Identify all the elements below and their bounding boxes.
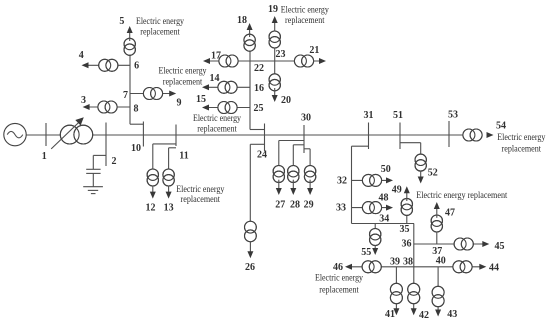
svg-text:33: 33: [336, 202, 346, 213]
wire arrow stem 43: [437, 307, 439, 312]
svg-text:40: 40: [436, 256, 446, 267]
node label 46: [333, 262, 343, 273]
svg-text:18: 18: [237, 15, 247, 26]
wire elbow bus10 to riser A: [130, 123, 143, 125]
node label 51: [393, 110, 403, 121]
load arrow 19: [272, 16, 278, 23]
load arrow 21: [319, 58, 326, 64]
transformer load 20: [269, 74, 280, 91]
node label 15: [196, 94, 206, 105]
transformer load 44: [453, 261, 472, 273]
bus 11 tick: [175, 125, 177, 147]
transformer load 49: [401, 198, 412, 215]
svg-text:9: 9: [177, 98, 182, 109]
wire node23 vertical down: [274, 61, 276, 75]
load arrow 45: [482, 241, 489, 247]
bus 51 tick: [399, 123, 401, 150]
transformer load 4: [99, 59, 118, 71]
svg-text:44: 44: [489, 262, 499, 273]
text electric energy replacement (9): [159, 66, 207, 87]
svg-text:51: 51: [393, 110, 403, 121]
transformer load 19: [269, 31, 280, 48]
svg-text:36: 36: [402, 238, 412, 249]
svg-text:34: 34: [379, 213, 389, 224]
bus 1 tick: [45, 123, 47, 146]
wire arrow stem 18: [249, 29, 251, 38]
svg-text:10: 10: [131, 143, 141, 154]
text electric energy replacement (54): [497, 132, 545, 154]
node label 47: [445, 207, 455, 218]
svg-text:28: 28: [290, 200, 300, 211]
svg-text:Electric energy: Electric energy: [136, 16, 184, 26]
node label 20: [281, 95, 291, 106]
load arrow 26: [247, 251, 253, 258]
wire arrow stem 19: [274, 22, 276, 32]
wire branch 9 at node 7: [130, 93, 172, 95]
transformer load 46: [362, 261, 381, 273]
svg-text:Electric energy: Electric energy: [315, 272, 363, 282]
node label 10: [131, 143, 141, 154]
wire riser B vertical: [249, 40, 251, 130]
load arrow 15: [202, 105, 209, 111]
wire arrow stem 13: [168, 186, 170, 193]
svg-text:30: 30: [301, 113, 311, 124]
node label 38: [403, 256, 413, 267]
node label 21: [309, 45, 319, 56]
load arrow 41: [393, 308, 399, 315]
svg-text:11: 11: [179, 150, 188, 161]
transformer load 18: [244, 34, 255, 51]
wire row 38 horizontal: [352, 266, 483, 268]
wire arrow stem 55: [374, 246, 376, 249]
wire stair bus30 drop 28: [293, 145, 304, 166]
svg-text:19: 19: [268, 4, 278, 15]
node label 42: [419, 310, 429, 321]
node label 8: [134, 104, 139, 115]
wire elbow bus51 to 52: [400, 143, 421, 155]
wire arrow stem 47: [436, 208, 438, 218]
transformer load 48: [362, 202, 381, 214]
bus 31 tick: [368, 123, 370, 150]
transformer load 47: [431, 215, 442, 232]
node label 11: [179, 150, 188, 161]
node label 53: [448, 109, 458, 120]
svg-text:replacement: replacement: [285, 15, 325, 25]
load arrow 48: [386, 205, 393, 211]
load arrow 52: [418, 177, 424, 184]
bus 53 tick: [448, 121, 450, 147]
wire stair bus11 drop 13: [169, 148, 176, 169]
transformer load 15: [218, 102, 237, 114]
node label 6: [134, 61, 139, 72]
wire arrow stem 26: [249, 242, 251, 253]
wire elbow bus24 to riser B: [250, 129, 265, 131]
svg-text:50: 50: [381, 164, 391, 175]
load arrow 44: [479, 264, 486, 270]
svg-text:48: 48: [379, 193, 389, 204]
svg-text:8: 8: [134, 104, 139, 115]
svg-text:21: 21: [309, 45, 319, 56]
svg-text:replacement: replacement: [197, 124, 237, 134]
svg-text:46: 46: [333, 262, 343, 273]
node label 54: [496, 120, 506, 131]
svg-text:2: 2: [112, 156, 117, 167]
node label 1: [42, 151, 47, 162]
transformer load 42: [408, 283, 420, 303]
text electric energy replacement (49): [416, 190, 507, 200]
transformer load 14: [218, 81, 237, 93]
transformer load 21: [294, 55, 313, 67]
bus 10 tick: [142, 122, 144, 147]
transformer load 9: [143, 88, 162, 100]
wire arrow stem 20: [274, 88, 276, 97]
node label 50: [381, 164, 391, 175]
node label 49: [392, 185, 402, 196]
svg-text:15: 15: [196, 94, 206, 105]
bus 24 tick: [264, 124, 266, 152]
node label 37: [432, 246, 442, 257]
node label 32: [337, 175, 347, 186]
load arrow 28: [290, 188, 296, 195]
wire main horizontal bus: [26, 134, 464, 136]
node label 33: [336, 202, 346, 213]
svg-text:24: 24: [257, 149, 267, 160]
load arrow 18: [247, 23, 253, 30]
node label 24: [257, 149, 267, 160]
wire stem 49: [406, 215, 408, 224]
svg-text:1: 1: [42, 151, 47, 162]
wire stair bus11 drop 12: [153, 144, 176, 169]
svg-text:20: 20: [281, 95, 291, 106]
svg-text:replacement: replacement: [502, 144, 542, 154]
wire left feeder vertical: [351, 146, 353, 223]
svg-text:Electric energy replacement: Electric energy replacement: [416, 190, 507, 200]
svg-text:14: 14: [210, 73, 220, 84]
load arrow 5: [127, 26, 133, 33]
node label 48: [379, 193, 389, 204]
transformer load 45: [454, 238, 473, 250]
wire riser A vertical: [129, 43, 131, 124]
node label 17: [211, 50, 221, 61]
transformer load 5: [124, 38, 135, 55]
svg-text:replacement: replacement: [319, 285, 359, 295]
node label 31: [364, 110, 374, 121]
load arrow 12: [150, 192, 156, 199]
wire elbow bus31 to left feeder: [352, 145, 369, 147]
load arrow 27: [276, 188, 282, 195]
wire node23 vertical up: [274, 48, 276, 62]
node label 27: [275, 200, 285, 211]
svg-text:25: 25: [254, 103, 264, 114]
AC source generator G: [4, 123, 26, 145]
wire stem 47: [436, 232, 438, 245]
transformer load 17: [219, 55, 238, 67]
node label 2: [112, 156, 117, 167]
svg-text:22: 22: [254, 63, 264, 74]
node label 44: [489, 262, 499, 273]
wire arrow stem 41: [395, 304, 397, 310]
text electric energy replacement (12/13): [176, 184, 224, 204]
transformer load 3: [98, 101, 117, 113]
load arrow 20: [272, 95, 278, 102]
node label 30: [301, 113, 311, 124]
svg-text:17: 17: [211, 50, 221, 61]
node label 25: [254, 103, 264, 114]
svg-text:32: 32: [337, 175, 347, 186]
load arrow 54: [487, 132, 494, 138]
load arrow 17: [203, 58, 210, 64]
svg-text:49: 49: [392, 185, 402, 196]
load arrow 42: [411, 308, 417, 315]
svg-text:35: 35: [400, 224, 410, 235]
wire bus2 to capacitor: [93, 155, 106, 169]
wire arrow stem 52: [420, 171, 422, 177]
wire branch 15 at node 25: [204, 107, 250, 109]
svg-text:45: 45: [495, 241, 505, 252]
text electric energy replacement (46): [315, 272, 363, 294]
svg-text:42: 42: [419, 310, 429, 321]
node label 29: [304, 200, 314, 211]
svg-text:23: 23: [276, 49, 286, 60]
wire arrow stem 12: [152, 186, 154, 193]
node label 22: [254, 63, 264, 74]
wire arrow stem 28: [292, 180, 294, 190]
node label 18: [237, 15, 247, 26]
wire branch 3 at node 8: [84, 106, 130, 108]
node label 19: [268, 4, 278, 15]
wire drop 26 vertical: [249, 144, 251, 222]
node label 26: [245, 262, 255, 273]
svg-text:16: 16: [254, 83, 264, 94]
node label 34: [379, 213, 389, 224]
svg-text:31: 31: [364, 110, 374, 121]
svg-text:47: 47: [445, 207, 455, 218]
node label 9: [177, 98, 182, 109]
load arrow 43: [435, 310, 441, 317]
transformer T1 (OLTC) with regulation arrow: [51, 117, 92, 149]
svg-text:replacement: replacement: [140, 27, 180, 37]
wire branch 48 at node 33: [352, 207, 389, 209]
svg-text:3: 3: [81, 95, 86, 106]
wire stair bus30 drop 29: [304, 149, 310, 166]
load arrow 14: [202, 84, 209, 90]
svg-text:26: 26: [245, 262, 255, 273]
transformer load 55: [370, 229, 381, 246]
svg-text:Electric energy: Electric energy: [193, 113, 241, 123]
node label 16: [254, 83, 264, 94]
wire drop 43: [437, 267, 439, 287]
transformer load 29: [304, 166, 315, 183]
wire stem 55: [374, 224, 376, 230]
svg-text:27: 27: [275, 200, 285, 211]
node label 13: [164, 202, 174, 213]
wire stair bus30 drop 27: [279, 141, 304, 166]
wire branch 50 at node 32: [352, 179, 389, 181]
node label 14: [210, 73, 220, 84]
load arrow 13: [166, 192, 172, 199]
svg-text:Electric energy: Electric energy: [497, 132, 545, 142]
svg-text:53: 53: [448, 109, 458, 120]
wire branch 17 at node 22: [205, 60, 250, 62]
text electric energy replacement (19): [281, 5, 329, 26]
wire row 34 horizontal: [352, 223, 415, 225]
node label 40: [436, 256, 446, 267]
svg-text:54: 54: [496, 120, 506, 131]
transformer load 27: [273, 166, 284, 183]
svg-text:5: 5: [119, 16, 124, 27]
node label 45: [495, 241, 505, 252]
node label 7: [123, 90, 128, 101]
svg-text:Electric energy: Electric energy: [159, 66, 207, 76]
node label 3: [81, 95, 86, 106]
ground: [83, 187, 103, 194]
svg-text:29: 29: [304, 200, 314, 211]
wire arrow stem 29: [309, 180, 311, 190]
transformer load 12: [147, 169, 158, 186]
wire branch 14 at node 16: [204, 86, 250, 88]
load arrow 9: [169, 91, 176, 97]
svg-text:replacement: replacement: [181, 194, 221, 204]
wire drop 41: [395, 267, 397, 284]
svg-text:12: 12: [146, 202, 156, 213]
svg-text:6: 6: [134, 61, 139, 72]
load arrow 29: [307, 188, 313, 195]
capacitor C1: [86, 169, 100, 186]
load arrow 55: [372, 248, 378, 255]
load arrow 50: [386, 177, 393, 183]
load arrow 3: [83, 104, 90, 110]
svg-text:Electric energy: Electric energy: [176, 184, 224, 194]
wire elbow bus24 to drop 26: [250, 143, 264, 145]
svg-text:43: 43: [447, 309, 457, 320]
load arrow 4: [82, 62, 89, 68]
wire branch 4 at node 6: [83, 64, 130, 66]
node label 36: [402, 238, 412, 249]
text electric energy replacement (15): [193, 113, 241, 133]
node label 4: [79, 50, 84, 61]
wire arrow stem 42: [413, 304, 415, 310]
svg-text:4: 4: [79, 50, 84, 61]
node label 12: [146, 202, 156, 213]
wire row 36 to 45: [414, 243, 486, 245]
text electric energy replacement (5): [136, 16, 184, 36]
node label 39: [390, 256, 400, 267]
transformer load 50: [362, 174, 381, 186]
load arrow 46: [345, 264, 352, 270]
bus 30 tick: [303, 125, 305, 153]
svg-text:52: 52: [428, 168, 438, 179]
svg-text:38: 38: [403, 256, 413, 267]
node label 23: [276, 49, 286, 60]
transformer load 41: [390, 283, 402, 303]
wire arrow stem 27: [278, 180, 280, 190]
load arrow 49: [404, 186, 410, 193]
transformer load 13: [163, 169, 174, 186]
svg-text:41: 41: [385, 309, 395, 320]
wire main lower vertical 35-36-38: [413, 224, 415, 286]
transformer load 26: [245, 221, 257, 242]
wire node22 to node23 to 21: [250, 60, 322, 62]
node label 28: [290, 200, 300, 211]
wire arrow stem 49: [406, 193, 408, 202]
svg-text:Electric energy: Electric energy: [281, 5, 329, 15]
wire arrow stem 5: [129, 32, 131, 42]
svg-text:39: 39: [390, 256, 400, 267]
transformer load 43: [432, 286, 444, 306]
node label 5: [119, 16, 124, 27]
node label 35: [400, 224, 410, 235]
svg-text:55: 55: [361, 247, 371, 258]
svg-text:replacement: replacement: [163, 77, 203, 87]
transformer load 52: [415, 154, 426, 171]
node label 43: [447, 309, 457, 320]
transformer load 54: [463, 129, 482, 141]
load arrow 47: [434, 202, 440, 209]
svg-text:7: 7: [123, 90, 128, 101]
bus 2 tick: [105, 123, 107, 167]
node label 52: [428, 168, 438, 179]
transformer load 28: [288, 166, 299, 183]
node label 41: [385, 309, 395, 320]
svg-text:13: 13: [164, 202, 174, 213]
node label 55: [361, 247, 371, 258]
